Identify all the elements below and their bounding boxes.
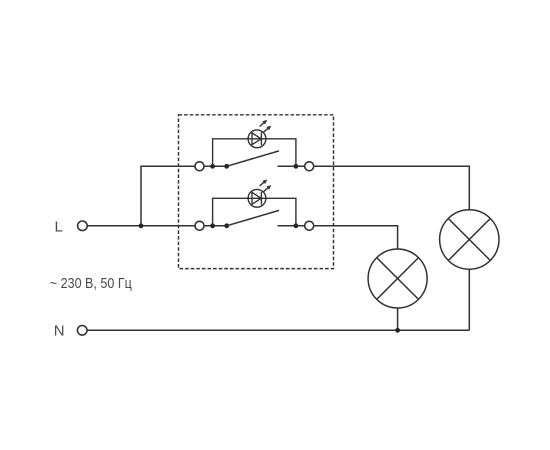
node: switch 1 LED tap left — [210, 164, 215, 169]
node: switch 2 LED tap left — [210, 223, 215, 228]
node: switch 1 LED tap right — [294, 164, 299, 169]
wire: LED 1 branch — [213, 139, 296, 167]
wire: riser from L junction to switch 1 — [141, 166, 195, 226]
label N — [54, 322, 65, 339]
LED indicator HL1 — [248, 120, 271, 148]
wire: switch 1 output to lamp EL2 — [314, 166, 470, 210]
node: switch 2 pole — [224, 223, 229, 228]
terminal: switch 1 output — [305, 162, 314, 171]
wire: switch 1 input segment — [204, 165, 227, 167]
wire: switch 2 output to lamp EL1 — [314, 226, 398, 249]
dashed enclosure: two-gang switch unit — [179, 115, 334, 269]
lamp EL2 — [440, 210, 499, 269]
node: lamp EL1 junction on N — [395, 328, 400, 333]
terminal L — [78, 221, 88, 231]
svg-text:~ 230 В, 50 Гц: ~ 230 В, 50 Гц — [50, 275, 132, 292]
terminal: switch 2 output — [305, 221, 314, 230]
LED indicator HL2 — [248, 179, 271, 207]
switch SA1 lever — [227, 151, 279, 166]
node: switch 2 LED tap right — [294, 223, 299, 228]
wire: N bus — [88, 329, 470, 331]
wire: switch 1 output segment — [278, 165, 305, 167]
svg-text:L: L — [55, 218, 63, 235]
wire: switch 2 input segment — [204, 225, 227, 227]
wire: lamp EL1 to N — [397, 308, 399, 330]
node: L branch junction — [139, 223, 144, 228]
label L — [55, 218, 63, 235]
wire: lamp EL2 to N — [468, 269, 470, 330]
node: switch 1 pole — [224, 164, 229, 169]
terminal: switch 1 input — [195, 162, 204, 171]
lamp EL1 — [368, 249, 427, 308]
svg-text:N: N — [54, 322, 65, 339]
wire: LED 2 branch — [213, 198, 296, 226]
wire: L feed to switch unit — [88, 225, 195, 227]
wire: switch 2 output segment — [278, 225, 305, 227]
terminal N — [77, 326, 87, 336]
value label: supply rating — [50, 275, 132, 292]
switch SA2 lever — [227, 210, 279, 225]
terminal: switch 2 input — [195, 221, 204, 230]
